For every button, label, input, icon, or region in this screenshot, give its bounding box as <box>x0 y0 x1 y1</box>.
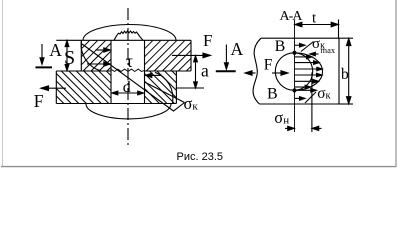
section mark A right: tick <box>216 70 236 72</box>
svg-text:a: a <box>201 61 209 81</box>
dimension t extension + line <box>285 20 353 133</box>
svg-text:B: B <box>275 38 286 55</box>
dimension S line and arrows <box>66 42 68 70</box>
plate outline (A-A view) with wavy break edge <box>253 38 339 104</box>
svg-text:A-A: A-A <box>280 9 304 24</box>
hatch top plate left part <box>56 41 191 104</box>
dimension a extension line <box>176 87 204 89</box>
svg-text:F: F <box>34 91 44 111</box>
frame bottom border <box>1 166 397 168</box>
sigma_k leader line 2 <box>145 82 185 103</box>
hatch bottom plate right part <box>145 96 153 104</box>
bearing stress envelope arc, top plate left of shank <box>81 41 101 71</box>
rivet shank hole edges <box>111 40 145 103</box>
section mark A right: arrow <box>216 45 236 72</box>
rivet lower head dome <box>86 104 171 119</box>
hatch top plate right part <box>145 41 153 49</box>
section mark A left: tick <box>36 66 53 68</box>
svg-text:F: F <box>203 31 212 50</box>
sigma_k leader bottom <box>305 92 316 103</box>
node top of hole (dot) <box>292 51 296 55</box>
bottom arrow to sigma_k <box>297 89 312 91</box>
svg-text:b: b <box>341 66 349 83</box>
svg-text:max: max <box>321 45 336 55</box>
rivet R upper head dome <box>83 25 176 41</box>
top plate outline <box>56 40 191 71</box>
dimension b line <box>348 39 350 103</box>
svg-text:Рис. 23.5: Рис. 23.5 <box>177 151 224 163</box>
frame right border <box>395 0 397 167</box>
sigma_k leader line (long, with elbow) <box>82 44 185 111</box>
dimension d line and arrows <box>114 92 142 94</box>
section mark A left: arrow <box>41 44 43 60</box>
formed-head jagged line inside dome <box>114 31 143 41</box>
svg-text:S: S <box>64 47 75 69</box>
shear plane wavy line across shank <box>111 69 145 71</box>
node bottom of hole (dot) <box>292 88 296 92</box>
dimension a line and arrows <box>195 57 197 88</box>
hole centerline vertical <box>294 20 296 133</box>
force F arrows (right diagram) <box>249 72 256 74</box>
bottom plate outline <box>56 71 176 104</box>
svg-text:A: A <box>49 40 62 60</box>
svg-text:B: B <box>267 85 278 102</box>
centerline of rivet (dash-dot) <box>127 8 129 145</box>
svg-text:F: F <box>264 57 273 74</box>
bearing stress arrow 2 (top plate) <box>87 63 105 65</box>
svg-text:d: d <box>123 79 131 96</box>
dimension sigma_n extension line <box>311 73 313 133</box>
bearing stress arrows on hole <box>245 42 322 104</box>
bearing stress envelope half-oval <box>295 53 323 91</box>
bearing stress envelope arc, bottom plate right of shank <box>155 72 173 103</box>
bearing stress arrow 1 (top plate) <box>87 48 173 103</box>
small arrow below hole <box>295 97 301 99</box>
dimension sigma_n arrows <box>285 127 294 129</box>
rivet hole circle <box>275 53 312 90</box>
frame left border <box>2 0 4 167</box>
svg-text:τ: τ <box>126 51 133 71</box>
arrow to sigma_k max <box>295 44 301 46</box>
hatch bottom plate left part <box>56 96 64 104</box>
sigma_k max leader <box>301 42 314 52</box>
dimension b extension lines <box>339 37 353 39</box>
svg-text:A: A <box>231 39 244 59</box>
force F bottom-left arrow <box>45 87 66 89</box>
force F top-right arrow <box>172 54 204 56</box>
bearing stress arrow (bottom plate) <box>150 74 161 76</box>
